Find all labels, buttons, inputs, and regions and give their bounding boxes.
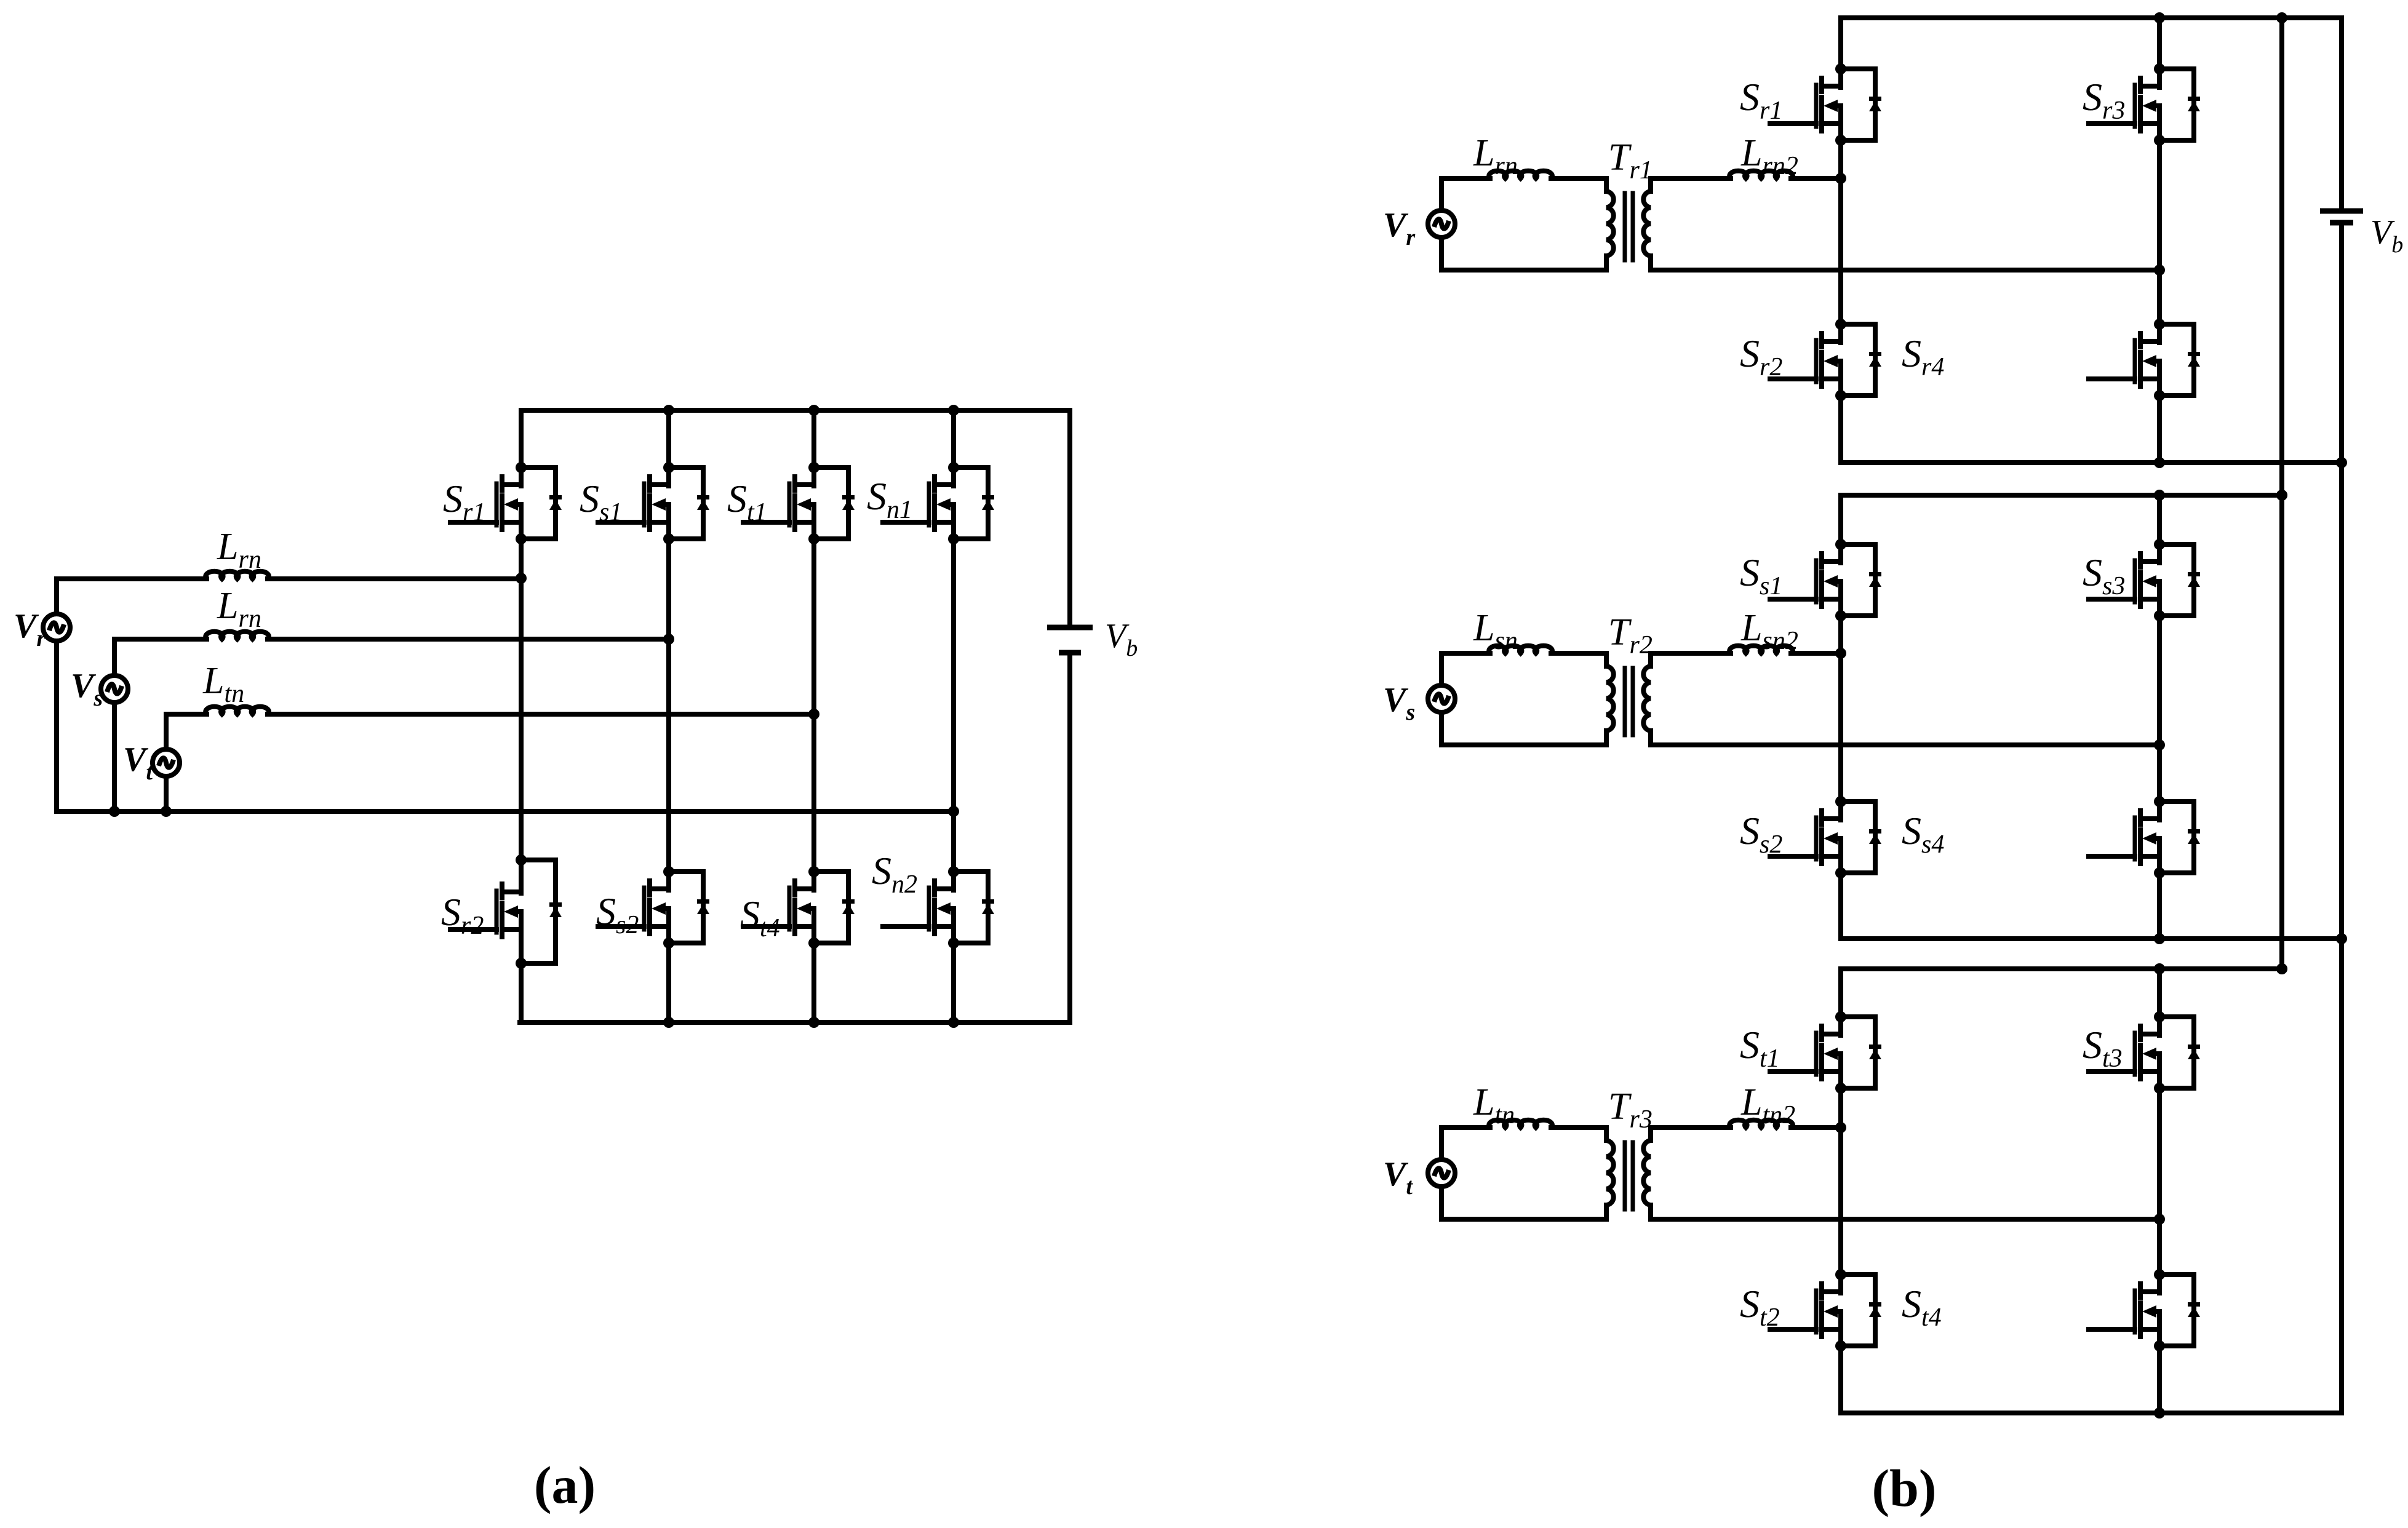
wire: module 2 left leg middle xyxy=(1838,616,1843,802)
inductor Ltn xyxy=(1489,1120,1552,1128)
wire: battery rail bottom (b) xyxy=(2339,223,2344,1413)
wire: module 1 top bus xyxy=(1841,15,2342,20)
wire: battery bottom lead (a) xyxy=(1067,656,1072,1022)
wire: inductor to column 3 xyxy=(268,712,814,717)
wire: module 2 bottom bus xyxy=(1841,936,2342,941)
wire: module 2 top bus xyxy=(1841,493,2282,498)
transformer Tr1 xyxy=(1606,178,1651,270)
transistor St4 (lower MOSFET col 3) xyxy=(743,866,855,949)
wire: battery top lead (a) xyxy=(1067,410,1072,625)
transistor Sr2 xyxy=(1770,319,1881,401)
wire: V1 rail (top buses interconnect) xyxy=(2279,18,2284,969)
node: V1 rail at module 2 top bus xyxy=(2276,490,2287,501)
node: module 1 right leg midpoint xyxy=(2154,265,2165,276)
node: top bus end at V1 rail xyxy=(2276,963,2287,974)
wire: module 1 right leg upper xyxy=(2157,18,2162,69)
node: Vs neutral junction xyxy=(109,806,120,817)
node: Vt neutral junction xyxy=(161,806,172,817)
node: top bus at V1 rail xyxy=(2276,12,2287,23)
wire: column 1 mid section xyxy=(519,539,524,860)
wire: column 1 top bus to upper MOSFET drain xyxy=(519,410,524,468)
wire: column 4 lower MOSFET source to bottom bus xyxy=(951,943,956,1022)
node: V1 rail at module 3 top bus xyxy=(2276,963,2287,974)
wire: module 3 primary top xyxy=(1441,1125,1490,1130)
transistor St1 (upper MOSFET col 3) xyxy=(743,462,855,544)
node: module 1 left leg midpoint xyxy=(1835,173,1846,184)
transistor Ss1 (upper MOSFET col 2) xyxy=(598,462,709,544)
node: top bus junction col 4 xyxy=(948,405,959,416)
wire: column 3 lower MOSFET source to bottom bus xyxy=(811,943,816,1022)
wire: module 2 left leg upper xyxy=(1838,495,1843,544)
source Vt (b) xyxy=(1439,1128,1444,1160)
node: top bus junction col 3 xyxy=(808,405,819,416)
node: bottom bus junction col 4 xyxy=(948,1017,959,1028)
wire: circuit (a) top DC bus xyxy=(521,408,1070,413)
svg-text:(a): (a) xyxy=(534,1455,596,1514)
node: phase connection on column 2 xyxy=(663,634,674,645)
battery Vb (a) xyxy=(1047,627,1093,653)
transistor St1 xyxy=(1770,1011,1881,1094)
wire: column 3 top bus to upper MOSFET drain xyxy=(811,410,816,468)
wire: phase s to inductor xyxy=(114,637,207,642)
inductor Ltn (phase t) xyxy=(205,707,269,714)
inductor Lsn xyxy=(1489,646,1552,653)
transistor Ss2 (lower MOSFET col 2) xyxy=(598,866,709,949)
node: bottom bus at battery rail xyxy=(2336,457,2347,468)
wire: inductor to column 2 xyxy=(268,637,669,642)
node: top bus at right leg xyxy=(2154,12,2165,23)
node: top bus end at V1 rail xyxy=(2276,490,2287,501)
node: phase connection on column 3 xyxy=(808,709,819,720)
wire: module 2 right leg lower xyxy=(2157,873,2162,939)
node: top bus at right leg xyxy=(2154,490,2165,501)
wire: battery rail top (b) xyxy=(2339,18,2344,209)
wire: column 4 top bus to upper MOSFET drain xyxy=(951,410,956,468)
node: top bus junction col 2 xyxy=(663,405,674,416)
source Vr (a) xyxy=(54,579,59,614)
transistor Ss1 xyxy=(1770,539,1881,621)
wire: module 1 primary top xyxy=(1441,176,1490,181)
wire: module 2 right leg middle xyxy=(2157,616,2162,802)
inductor Lrn2 xyxy=(1729,171,1793,178)
node: module 2 left leg midpoint xyxy=(1835,648,1846,659)
node: module 2 right leg midpoint xyxy=(2154,739,2165,750)
wire: module 2 secondary bottom to right leg xyxy=(1651,742,2159,747)
transistor St3 xyxy=(2089,1011,2200,1094)
wire: module 1 right leg lower xyxy=(2157,396,2162,463)
node: module 3 right leg midpoint xyxy=(2154,1214,2165,1225)
transformer Tr3 xyxy=(1606,1128,1651,1219)
inductor Ltn2 xyxy=(1729,1120,1793,1128)
wire: module 2 primary bottom xyxy=(1441,742,1606,747)
transistor Sr1 xyxy=(1770,63,1881,146)
svg-text:(b): (b) xyxy=(1872,1458,1936,1518)
inductor Lrn (phase s) xyxy=(205,632,269,639)
transistor Sr1 (upper MOSFET col 1) xyxy=(450,462,562,544)
wire: module 3 right leg upper xyxy=(2157,969,2162,1017)
node: bottom bus junction col 3 xyxy=(808,1017,819,1028)
wire: circuit (a) bottom DC bus xyxy=(520,1020,1070,1025)
transistor Sr4 xyxy=(2089,319,2200,401)
wire: module 1 secondary bottom to right leg xyxy=(1651,268,2159,273)
node: bottom bus at right leg xyxy=(2154,1407,2165,1419)
wire: module 1 right leg middle xyxy=(2157,140,2162,324)
transistor Sn2 (lower MOSFET col 4) xyxy=(883,866,994,949)
wire: module 3 left leg middle xyxy=(1838,1088,1843,1275)
wire: module 3 bottom bus xyxy=(1841,1411,2342,1415)
wire: module 3 left leg upper xyxy=(1838,969,1843,1017)
wire: module 3 right leg lower xyxy=(2157,1346,2162,1413)
source Vs (a) xyxy=(112,639,117,675)
transistor Sn1 (upper MOSFET col 4) xyxy=(883,462,994,544)
transformer Tr2 xyxy=(1606,653,1651,745)
wire: column 2 top bus to upper MOSFET drain xyxy=(666,410,671,468)
wire: module 3 secondary top xyxy=(1651,1125,1731,1130)
source Vt (a) xyxy=(164,714,169,749)
wire: column 3 mid section xyxy=(811,539,816,872)
inductor Lsn2 xyxy=(1729,646,1793,653)
transistor St4 xyxy=(2089,1269,2200,1351)
node: phase connection on column 1 xyxy=(516,573,527,584)
wire: module 1 left leg upper xyxy=(1838,18,1843,69)
wire: module 3 primary bottom xyxy=(1441,1217,1606,1222)
wire: column 2 lower MOSFET source to bottom bus xyxy=(666,943,671,1022)
source Vs (b) xyxy=(1439,653,1444,685)
wire: module 1 left leg middle xyxy=(1838,140,1843,324)
wire: module 2 primary top xyxy=(1441,651,1490,656)
node: bottom bus at right leg xyxy=(2154,457,2165,468)
wire: module 1 bottom bus xyxy=(1841,460,2342,465)
wire: module 2 left leg lower xyxy=(1838,873,1843,939)
wire: column 1 lower MOSFET source to bottom bus xyxy=(519,963,524,1022)
source Vr (b) xyxy=(1439,178,1444,210)
wire: module 3 right leg middle xyxy=(2157,1088,2162,1275)
wire: module 3 secondary bottom to right leg xyxy=(1651,1217,2159,1222)
wire: inductor to column 1 xyxy=(268,576,521,581)
wire: phase r to inductor xyxy=(57,576,207,581)
node: phase connection on column 4 xyxy=(948,806,959,817)
wire: column 2 mid section xyxy=(666,539,671,872)
wire: module 1 primary bottom xyxy=(1441,268,1606,273)
wire: column 4 mid section xyxy=(951,539,956,872)
node: bottom bus at right leg xyxy=(2154,933,2165,944)
node: bottom bus at battery rail xyxy=(2336,933,2347,944)
wire: module 1 secondary top xyxy=(1651,176,1731,181)
wire: phase t to inductor xyxy=(166,712,207,717)
transistor St2 xyxy=(1770,1269,1881,1351)
wire: module 2 right leg upper xyxy=(2157,495,2162,544)
wire: module 3 top bus xyxy=(1841,966,2282,971)
battery Vb (b) xyxy=(2320,211,2363,223)
transistor Ss3 xyxy=(2089,539,2200,621)
transistor Ss4 xyxy=(2089,796,2200,878)
transistor Ss2 xyxy=(1770,796,1881,878)
wire: neutral bus to column 4 xyxy=(57,809,954,814)
inductor Lrn (phase r) xyxy=(205,571,269,579)
transistor Sr3 xyxy=(2089,63,2200,146)
wire: module 3 left leg lower xyxy=(1838,1346,1843,1413)
node: bottom bus junction col 2 xyxy=(663,1017,674,1028)
wire: module 2 secondary top xyxy=(1651,651,1731,656)
inductor Lrn xyxy=(1489,171,1552,178)
wire: module 1 left leg lower xyxy=(1838,396,1843,463)
transistor Sr2 (lower MOSFET col 1, tall) xyxy=(450,854,562,969)
node: top bus at right leg xyxy=(2154,963,2165,974)
node: module 3 left leg midpoint xyxy=(1835,1122,1846,1133)
